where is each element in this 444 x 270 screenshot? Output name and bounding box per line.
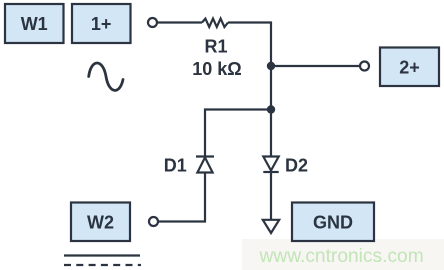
terminal circle 1+ bbox=[148, 18, 157, 27]
svg-text:1+: 1+ bbox=[91, 14, 112, 34]
svg-text:R1: R1 bbox=[204, 37, 227, 57]
svg-text:W1: W1 bbox=[21, 14, 48, 34]
wire node A to 2+ terminal bbox=[271, 65, 360, 67]
svg-text:D2: D2 bbox=[285, 156, 308, 176]
wire from 1+ terminal to R1 bbox=[157, 21, 202, 23]
wire D1 to W2 terminal bbox=[158, 174, 205, 222]
resistor R1 bbox=[202, 19, 228, 27]
svg-text:www.cntronics.com: www.cntronics.com bbox=[259, 246, 424, 267]
svg-text:2+: 2+ bbox=[399, 57, 420, 77]
wire D2 to ground bbox=[270, 172, 272, 219]
wire node A to node B bbox=[270, 66, 272, 110]
sine wave symbol bbox=[89, 63, 123, 90]
terminal circle W2 bbox=[149, 217, 158, 226]
terminal box 1+ bbox=[72, 4, 131, 43]
wire node B to D2 bbox=[270, 110, 272, 157]
svg-text:10 kΩ: 10 kΩ bbox=[192, 59, 241, 79]
dashed reference line under W2 bbox=[64, 264, 141, 266]
svg-text:GND: GND bbox=[313, 212, 353, 232]
terminal box GND bbox=[292, 203, 374, 242]
node B junction dot bbox=[267, 105, 275, 113]
terminal box W1 bbox=[5, 4, 64, 43]
node A junction dot bbox=[267, 62, 275, 70]
wire from R1 to node A bbox=[228, 23, 271, 67]
watermark band background bbox=[242, 239, 444, 270]
wire node B to D1 branch bbox=[205, 110, 271, 156]
svg-text:D1: D1 bbox=[164, 156, 187, 176]
solid reference line under W2 bbox=[64, 254, 140, 256]
terminal box 2+ bbox=[380, 48, 439, 87]
svg-text:W2: W2 bbox=[87, 212, 114, 232]
terminal circle 2+ bbox=[360, 62, 369, 71]
diode D2 (cathode down) bbox=[263, 157, 278, 173]
diode D1 (cathode up) bbox=[196, 157, 214, 173]
ground symbol bbox=[263, 220, 279, 233]
terminal box W2 bbox=[71, 203, 130, 242]
